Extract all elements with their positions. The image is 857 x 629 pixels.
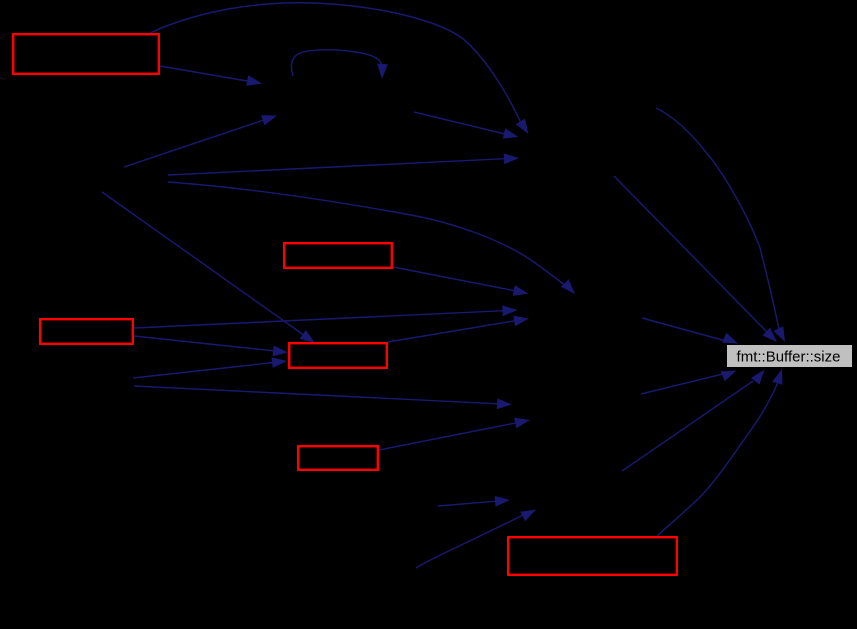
svg-text:fmt::Buffer::size: fmt::Buffer::size	[737, 349, 841, 366]
